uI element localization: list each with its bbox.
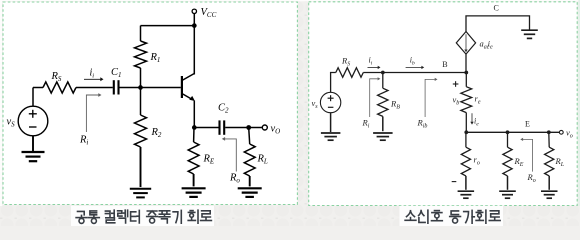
resistor RE (188, 128, 199, 187)
current arrow i_i (84, 77, 104, 81)
resistor r_o (461, 132, 470, 190)
ground (collector) (521, 29, 538, 31)
ground (vs) (321, 113, 341, 141)
base resistance indicator R_ib (425, 78, 437, 117)
label - (vb) (452, 181, 457, 183)
caption: left figure title (76, 210, 211, 223)
wire (33, 87, 43, 89)
dependent source a_ac*i_e (456, 32, 475, 73)
ground (vS) (22, 136, 45, 161)
wire (76, 87, 113, 89)
node B (464, 71, 468, 75)
terminal v_o (559, 130, 563, 134)
input resistance indicator R_i (370, 77, 381, 117)
node (RL junction) (547, 130, 551, 134)
output resistance indicator R_o (222, 137, 237, 172)
terminal vO (249, 125, 268, 130)
resistor r_e (461, 73, 472, 133)
source vs (320, 73, 340, 113)
terminal VCC (192, 9, 196, 26)
wire (194, 127, 218, 129)
node (emitter junction) (192, 125, 197, 130)
node (Vcc junction) (192, 23, 197, 28)
node (output junction) (246, 125, 251, 130)
current arrow i_e (470, 113, 473, 124)
wire (C row) (466, 16, 530, 32)
wire (E row) (466, 131, 559, 133)
svg-text:C: C (494, 3, 499, 12)
node E (emitter junction) (464, 130, 468, 134)
node (RB junction) (381, 71, 385, 75)
wire (R1 top to Vcc) (141, 25, 195, 27)
resistor R1 (135, 26, 147, 88)
input resistance indicator R_i (86, 93, 101, 132)
svg-text:E: E (525, 119, 530, 128)
resistor RL (244, 128, 255, 187)
output resistance indicator R_o (small-signal) (520, 138, 532, 172)
ground (RB) (373, 132, 393, 134)
source vS (18, 88, 48, 136)
caption: right figure title (405, 210, 500, 223)
resistor RS (small-signal) (336, 68, 364, 78)
wire (B row) (383, 72, 467, 74)
node (base / R1 / R2 junction) (138, 85, 143, 90)
resistor RB (378, 73, 388, 132)
ground (RE small-signal) (499, 190, 516, 192)
capacitor C2 (220, 120, 225, 134)
resistor R2 (135, 88, 147, 188)
resistor RL (small-signal) (545, 132, 554, 190)
current arrow i_b (406, 66, 425, 69)
ground (RE) (182, 187, 206, 189)
left panel (3, 2, 297, 205)
right panel (309, 2, 578, 206)
wire (120, 87, 141, 89)
ground (R2) (130, 188, 151, 190)
svg-text:B: B (442, 60, 447, 69)
wire (363, 72, 383, 74)
transistor Q1 (npn) (141, 26, 195, 128)
ground (RL small-signal) (541, 190, 558, 192)
node (RE junction) (506, 130, 510, 134)
current arrow i_i (368, 66, 381, 69)
wire (225, 127, 249, 129)
resistor RE (small-signal) (503, 132, 512, 190)
resistor RS (43, 82, 76, 93)
ground (r_o) (458, 190, 475, 192)
ground (RL) (238, 187, 262, 189)
capacitor C1 (114, 80, 119, 94)
label + (vb) (453, 83, 459, 85)
